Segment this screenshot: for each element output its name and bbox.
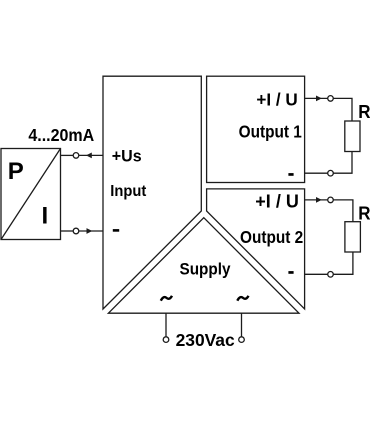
arrow input + (points left) (86, 153, 92, 159)
terminal circle supply R (239, 337, 245, 343)
block Output 2 (207, 189, 305, 309)
wire output1 + (305, 97, 328, 99)
arrow input - (points right) (87, 228, 93, 234)
wire output2 - (305, 273, 328, 275)
terminal circle input + (73, 153, 79, 159)
transmitter P1 (P/I converter) (1, 149, 61, 240)
wire R2 to output2 - terminal (333, 252, 353, 274)
terminal circle output1 - (328, 170, 334, 176)
svg-text:I: I (42, 202, 49, 229)
wire output1 - (305, 172, 328, 174)
resistor R1 (345, 121, 360, 152)
pin label ~ right (237, 296, 248, 301)
terminal circle output1 + (328, 96, 334, 102)
svg-text:+Us: +Us (112, 147, 142, 165)
pin label output1 minus (288, 173, 293, 176)
block Output 1 (207, 76, 305, 182)
svg-text:Output 2: Output 2 (240, 228, 303, 247)
svg-text:Output 1: Output 1 (239, 123, 302, 142)
pin label input minus (113, 229, 119, 232)
svg-text:+I / U: +I / U (256, 89, 297, 110)
terminal circle output2 + (328, 197, 334, 203)
wire supply R (241, 313, 243, 337)
terminal circle supply L (163, 337, 169, 343)
wire transmitter- to terminal (61, 230, 74, 232)
terminal circle input - (73, 228, 79, 234)
wire terminal to - pin (79, 230, 103, 232)
arrow output1 + (points right) (316, 96, 322, 102)
svg-text:P: P (8, 158, 24, 185)
svg-text:Input: Input (110, 183, 146, 201)
wire R1 to output1 - terminal (333, 152, 352, 174)
wire transmitter+ to terminal (61, 154, 74, 156)
wire supply L (165, 313, 167, 337)
pin label ~ left (161, 296, 172, 301)
block Input (103, 76, 201, 309)
terminal circle output2 - (328, 272, 334, 278)
svg-text:230Vac: 230Vac (176, 330, 235, 350)
svg-text:4...20mA: 4...20mA (28, 125, 94, 145)
wire output2 + (305, 199, 328, 201)
wire terminal to +Us pin (79, 154, 103, 156)
arrow output2 + (points right) (316, 197, 322, 203)
block Supply (triangle) (108, 218, 299, 314)
svg-text:Supply: Supply (180, 260, 231, 279)
svg-text:+I / U: +I / U (255, 191, 299, 211)
wire output2 + to R2 (333, 200, 353, 222)
pin label output2 minus (288, 271, 293, 274)
resistor R2 (345, 222, 361, 252)
wire output1 + to R1 (333, 98, 352, 121)
svg-text:R: R (358, 203, 370, 224)
svg-text:R: R (358, 102, 370, 123)
